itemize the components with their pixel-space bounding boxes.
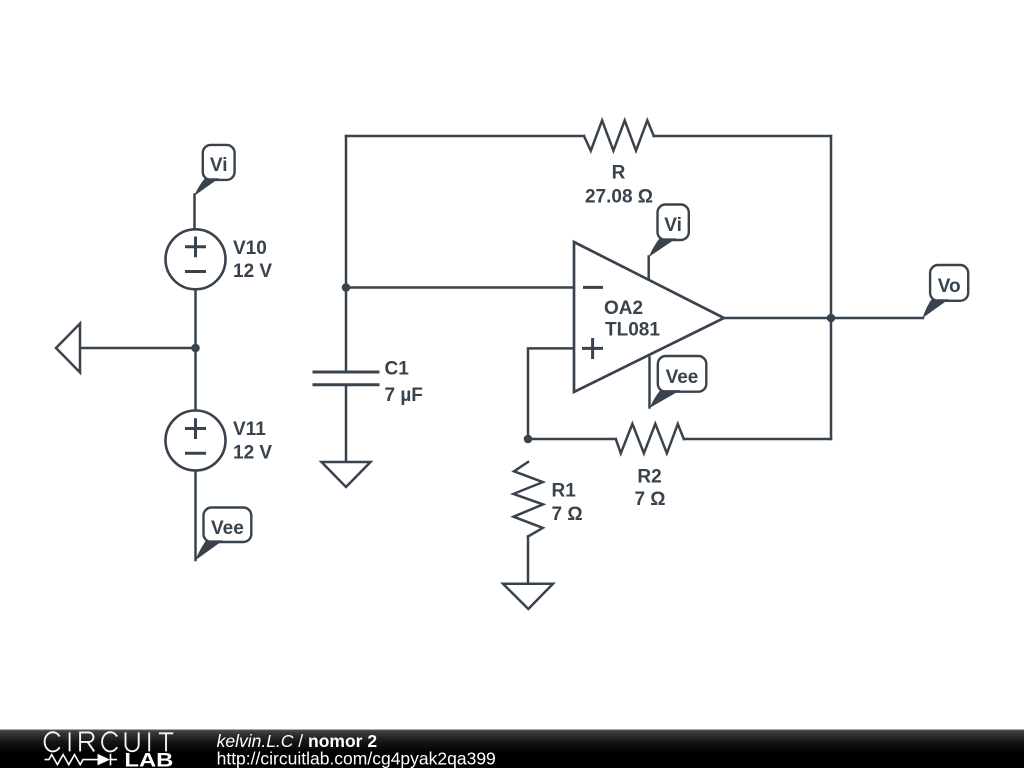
svg-text:OA2: OA2 bbox=[604, 298, 643, 319]
svg-text:LAB: LAB bbox=[124, 749, 173, 768]
svg-text:12 V: 12 V bbox=[233, 443, 272, 464]
svg-text:12 V: 12 V bbox=[233, 261, 272, 282]
svg-text:7 µF: 7 µF bbox=[385, 385, 423, 406]
svg-text:7 Ω: 7 Ω bbox=[634, 489, 665, 510]
svg-text:C1: C1 bbox=[385, 358, 410, 379]
svg-text:http://circuitlab.com/cg4pyak2: http://circuitlab.com/cg4pyak2qa399 bbox=[217, 748, 496, 768]
svg-text:Vee: Vee bbox=[211, 518, 244, 539]
svg-text:27.08 Ω: 27.08 Ω bbox=[585, 186, 653, 207]
svg-text:V10: V10 bbox=[233, 238, 267, 259]
svg-text:Vo: Vo bbox=[938, 276, 961, 297]
svg-text:TL081: TL081 bbox=[605, 319, 660, 340]
svg-text:Vee: Vee bbox=[666, 367, 699, 388]
svg-text:Vi: Vi bbox=[664, 215, 682, 236]
svg-text:Vi: Vi bbox=[210, 155, 228, 176]
svg-text:R2: R2 bbox=[637, 467, 661, 488]
svg-text:7 Ω: 7 Ω bbox=[552, 504, 583, 525]
svg-text:R1: R1 bbox=[552, 480, 577, 501]
svg-text:R: R bbox=[612, 163, 626, 184]
svg-text:V11: V11 bbox=[233, 419, 266, 440]
